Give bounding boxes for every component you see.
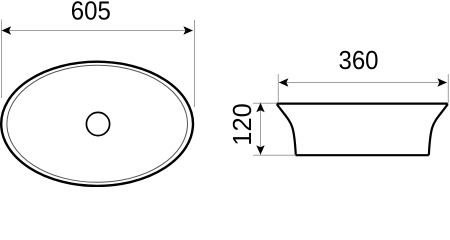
dimension 360: dimension line: [279, 82, 447, 84]
dimension 360: right extension line: [447, 74, 449, 103]
dimension 605: right extension line: [194, 20, 196, 107]
dimension 120: bottom extension line: [253, 154, 296, 156]
dimension 605: right arrowhead: [183, 26, 193, 34]
svg-text:360: 360: [339, 47, 379, 75]
basin inner rim ellipse: [7, 65, 188, 182]
dimension 605: left arrowhead: [2, 26, 12, 34]
basin outer rim ellipse: [1, 62, 193, 186]
dimension 360: right arrowhead: [437, 78, 447, 86]
svg-text:120: 120: [229, 103, 257, 146]
dimension 605: left extension line: [1, 20, 3, 99]
dimension 360: left extension line: [277, 74, 279, 103]
basin left wall curve: [277, 104, 296, 155]
dimension 120: top extension line: [253, 102, 277, 104]
dimension 120: bottom arrowhead: [256, 145, 264, 155]
basin right wall curve: [429, 104, 448, 155]
dimension 120: dimension line: [260, 103, 262, 155]
svg-text:605: 605: [71, 0, 111, 25]
basin base line: [295, 154, 428, 156]
dimension 120: top arrowhead: [256, 103, 264, 113]
drain circle: [86, 112, 109, 135]
dimension 360: left arrowhead: [279, 78, 289, 86]
basin rim top line: [277, 102, 448, 104]
dimension 605: dimension line: [2, 30, 193, 32]
